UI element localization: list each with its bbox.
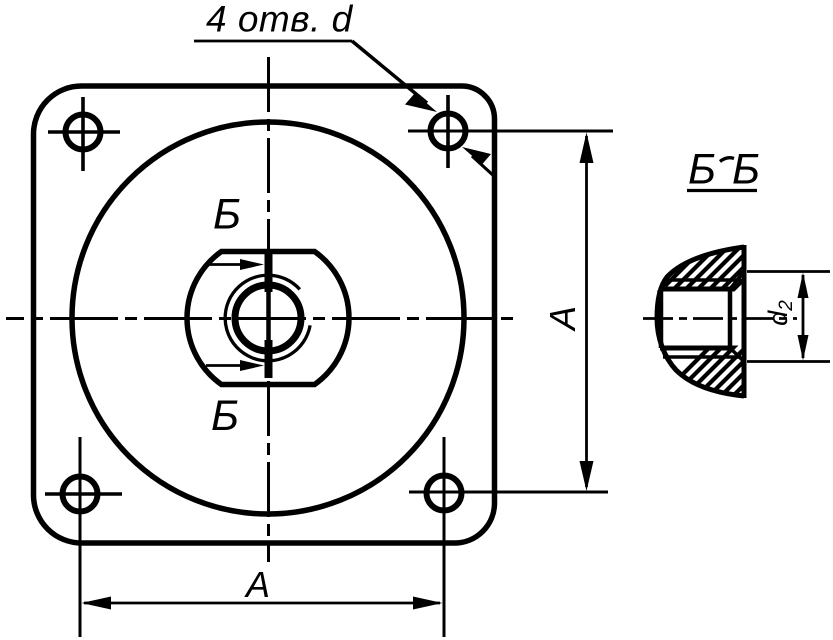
svg-text:A: A (244, 564, 270, 605)
dimension A horizontal bottom (82, 597, 443, 610)
leader line 4 otv d (194, 41, 437, 112)
svg-text:A: A (542, 306, 583, 332)
corner hole bottom-right (427, 476, 462, 511)
thread arc (225, 275, 310, 361)
tilde dash of B-B (720, 158, 734, 162)
corner hole top-left (48, 97, 120, 171)
svg-text:Б: Б (211, 392, 239, 440)
chamfer line top-right (730, 272, 744, 290)
extension line d2 bottom (747, 360, 830, 363)
section arrow top (206, 259, 264, 270)
centerline horizontal (6, 317, 517, 320)
section arrow bottom (206, 360, 264, 371)
svg-text:4 отв. d: 4 отв. d (206, 0, 354, 40)
bolt circle main circle (72, 122, 464, 514)
centerline vertical (267, 57, 270, 562)
section dome outline (657, 247, 744, 396)
section right face (742, 245, 747, 398)
section view B-B (642, 191, 830, 416)
extension line right from bottom-right hole (409, 491, 608, 494)
dimension line d2 (798, 273, 809, 361)
extension line d2 top (747, 270, 830, 273)
svg-text:Б: Б (732, 146, 760, 194)
svg-text:Б: Б (688, 146, 716, 194)
thread major line top (663, 278, 741, 282)
center hole (235, 285, 301, 351)
svg-text:Б: Б (213, 191, 241, 239)
extension line from bottom-left hole (79, 437, 82, 637)
corner hole top-right (431, 95, 466, 168)
label d2 (763, 300, 797, 326)
section title underline (687, 189, 757, 192)
hub boss outline (187, 252, 349, 385)
section centerline (643, 317, 797, 320)
extension line down from bottom-right hole (443, 437, 446, 637)
cutting plane line through hub (266, 253, 271, 378)
hatching bottom band (642, 335, 794, 415)
diameter arrow lower-right of top-right hole (462, 147, 495, 177)
hatching top band (646, 235, 788, 305)
corner hole bottom-left (45, 477, 122, 512)
thread major line bottom (663, 355, 741, 359)
chamfer line bottom-right (730, 348, 744, 362)
cutting plane mark bottom (265, 340, 273, 378)
section hole outline (660, 289, 730, 348)
dimension A vertical (580, 133, 594, 492)
plate outline (34, 86, 495, 543)
extension line from top-right hole (408, 130, 613, 133)
cutting plane mark top (265, 253, 273, 292)
